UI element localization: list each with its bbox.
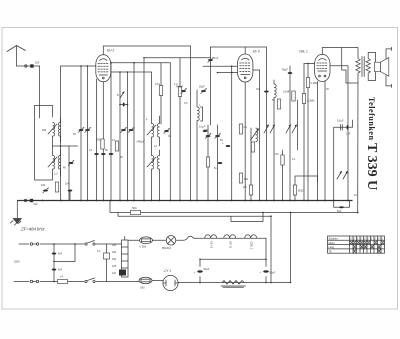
osc coil core bracket	[201, 107, 203, 121]
lamp BW304	[166, 236, 176, 246]
svg-text:150: 150	[112, 258, 117, 261]
resistor R3	[159, 86, 162, 96]
resistor R9	[55, 182, 58, 192]
trimmer C8	[215, 133, 221, 138]
antenna	[7, 46, 26, 67]
tube EH2 cathode dome	[100, 59, 108, 61]
electrolytic small x228	[226, 145, 231, 147]
svg-text:50μF: 50μF	[199, 86, 205, 89]
IF transformer T2 secondary coil	[157, 124, 159, 138]
resistor R13	[206, 157, 209, 167]
svg-text:0,15: 0,15	[155, 83, 160, 86]
wire vertical x120	[119, 72, 121, 201]
capacitor mid3	[109, 153, 114, 155]
heater EH2	[205, 235, 217, 238]
wire tie y146	[53, 145, 78, 147]
selector tick labels	[112, 244, 117, 275]
wire antenna to coupling cap	[17, 65, 40, 67]
svg-text:2M: 2M	[243, 186, 246, 189]
svg-text:50μF: 50μF	[270, 272, 276, 275]
table row labels	[329, 238, 338, 254]
svg-text:220: 220	[112, 251, 117, 254]
table header marks	[350, 238, 384, 241]
wire EF9 grid pin down	[231, 66, 233, 200]
ground stem left	[16, 201, 18, 219]
wire primary top	[356, 48, 358, 59]
svg-text:EF 9: EF 9	[229, 242, 233, 249]
capacitor 5nF bus	[30, 199, 33, 202]
svg-text:1μF: 1μF	[346, 133, 351, 136]
wire grid line y66	[61, 65, 96, 67]
capacitor blob x70	[68, 190, 73, 192]
junction dots anode line	[110, 62, 112, 64]
wire CBL1 anode top	[322, 48, 356, 55]
speaker voice coil	[375, 62, 381, 71]
plug pin lower	[30, 280, 38, 282]
wire vertical x81	[80, 66, 82, 201]
resistor R5	[249, 185, 252, 195]
wire T1 secondary	[60, 118, 62, 142]
svg-text:1nF: 1nF	[65, 183, 70, 186]
wire bus gap	[17, 200, 24, 202]
wire vertical x308 grid leak	[307, 64, 309, 201]
svg-text:U 500: U 500	[140, 246, 147, 249]
svg-text:TA: TA	[329, 250, 332, 253]
trimmer C4	[128, 127, 134, 132]
tube EF9 anode line	[241, 74, 250, 76]
wire EH2 top to screen rail	[103, 46, 190, 55]
coil can L1 outline	[35, 106, 53, 181]
svg-text:100: 100	[41, 184, 46, 187]
wire x70 stub	[69, 191, 71, 201]
svg-text:0,1: 0,1	[89, 149, 93, 152]
svg-text:250: 250	[96, 139, 101, 142]
svg-text:450μF: 450μF	[176, 86, 184, 89]
speaker cone	[381, 58, 389, 77]
svg-text:5nF: 5nF	[35, 62, 40, 65]
tube EF9 heater dot	[244, 77, 246, 79]
wire vertical x161	[160, 63, 162, 124]
junction dot CBL1 grid	[307, 63, 309, 65]
resistor R11	[239, 124, 242, 134]
wire EF9 right pin	[253, 70, 260, 201]
tube CBL1 anode line	[318, 70, 327, 72]
svg-text:Schalter: Schalter	[329, 238, 338, 241]
svg-text:0,1μF: 0,1μF	[337, 120, 344, 123]
mains line lower y281.5	[14, 281, 140, 283]
trimmer C6 padder	[181, 88, 187, 93]
svg-text:Lang: Lang	[329, 246, 335, 249]
junction dot B+	[357, 212, 359, 214]
wire vertical x210.5	[210, 47, 212, 125]
wire secondary to voice coil	[368, 53, 375, 81]
svg-text:0,4MΩ: 0,4MΩ	[311, 82, 319, 85]
resistor R14	[292, 91, 295, 101]
svg-text:5nF: 5nF	[58, 269, 63, 272]
svg-text:50μF: 50μF	[204, 268, 210, 271]
svg-text:EF 9: EF 9	[253, 50, 260, 54]
trimmer C11	[43, 188, 49, 193]
svg-text:100: 100	[256, 88, 261, 91]
IF transformer T2 primary coil	[152, 124, 154, 138]
trimmer C9	[208, 57, 214, 62]
resistor R6	[281, 155, 284, 165]
wire vertical x87.5	[87, 66, 89, 201]
wire vertical x274	[273, 80, 275, 201]
trimmer C1	[78, 127, 84, 132]
trimmer C3	[121, 127, 127, 132]
capacitor 5nF antenna	[30, 64, 33, 67]
filter resistor zigzag	[221, 281, 246, 288]
wave table box	[328, 236, 385, 253]
tone loop under bus	[334, 201, 350, 208]
resistor R1	[101, 139, 104, 149]
tube EH2 anode line	[99, 74, 108, 76]
rectifier CY1	[163, 275, 178, 290]
capacitor blob x71	[68, 160, 74, 165]
svg-text:T 339 U: T 339 U	[364, 143, 379, 190]
svg-text:EH 2: EH 2	[107, 49, 114, 53]
tube EF9 grids	[240, 63, 251, 71]
wire primary bottom	[342, 48, 358, 213]
wire vertical x297.5	[297, 100, 299, 150]
wire EF9 screen rail	[211, 47, 267, 54]
wire T2 leads	[152, 72, 160, 201]
svg-text:1 A: 1 A	[60, 276, 64, 279]
dc top rail y259.3	[200, 259, 266, 282]
main ground bus y200.5	[17, 200, 352, 202]
svg-text:U: U	[381, 238, 383, 241]
wire vertical x304	[303, 64, 305, 201]
svg-text:0,1: 0,1	[97, 250, 101, 253]
coil L4	[274, 84, 276, 98]
capacitor blob x266	[264, 91, 269, 93]
voltage selector ladder	[122, 240, 129, 277]
wire vertical x111	[110, 63, 112, 201]
node bus circle	[24, 199, 26, 201]
wire vertical x217.5	[217, 125, 219, 201]
wire EH2 cathode down	[102, 82, 104, 201]
heater EF9	[224, 235, 236, 238]
svg-text:0,1: 0,1	[112, 139, 116, 142]
svg-text:CY 1: CY 1	[164, 269, 171, 273]
resistor R4	[178, 87, 181, 97]
switch contact arrows S2	[286, 125, 297, 133]
svg-text:5nF: 5nF	[34, 203, 39, 206]
tube CBL1 cathode dome	[319, 59, 326, 61]
wire vertical x127.5	[127, 72, 129, 201]
capacitor mid2	[101, 153, 106, 155]
junction dot EF9 grid	[231, 65, 233, 67]
trimmer C6b padder	[201, 88, 207, 93]
wire vertical x144	[144, 58, 211, 201]
wire CBL1 pin2 down	[324, 81, 326, 200]
capacitor blob x220	[218, 162, 223, 164]
junction dots on y66	[80, 65, 82, 67]
wire CBL1 screen right	[330, 66, 348, 201]
heater bus y216	[118, 213, 271, 217]
wire vertical x61	[60, 66, 62, 201]
svg-text:240: 240	[112, 244, 117, 247]
wire CBL1 grid left	[304, 63, 315, 65]
resistor R10 600ohm	[293, 185, 296, 195]
wire L2 leads	[53, 136, 61, 176]
svg-text:5nF: 5nF	[337, 210, 342, 213]
fuse U50 lower	[139, 277, 152, 283]
svg-text:220V: 220V	[14, 261, 20, 264]
IF T2 lower secondary	[157, 156, 159, 170]
resistor R7 0,1M	[306, 78, 309, 88]
anode bus y212.5	[110, 201, 358, 213]
resistor R11b	[239, 173, 242, 183]
svg-text:5nF: 5nF	[58, 253, 63, 256]
tube EF9 cathode dome	[242, 58, 250, 60]
trimmer C2	[85, 127, 91, 132]
svg-text:460: 460	[42, 129, 47, 132]
wire vertical x282.5	[282, 150, 284, 201]
wire heater end down	[265, 238, 267, 282]
tube CBL1 diode dots	[319, 75, 321, 77]
resistor R15	[277, 99, 280, 109]
tuning arrow L2	[48, 157, 57, 167]
wire vertical x134	[133, 63, 135, 201]
wire EF9 grid left	[203, 65, 238, 67]
svg-text:110: 110	[112, 272, 117, 275]
tone line y131.8	[334, 120, 353, 201]
svg-text:50Ω: 50Ω	[132, 207, 137, 210]
wire vertical x266.4	[265, 47, 267, 201]
svg-text:0,1MΩ: 0,1MΩ	[283, 91, 291, 94]
capacitor blob c2	[347, 125, 349, 130]
wire x271 down	[270, 216, 272, 282]
arrow small x122	[120, 92, 124, 98]
capacitor row mid	[94, 153, 99, 155]
resistor R8 0,3M	[302, 94, 305, 104]
wire fuse to lamp	[153, 239, 167, 241]
svg-text:0,1μF: 0,1μF	[199, 126, 206, 129]
wire EF9 cathode down	[244, 82, 246, 201]
bus junction dots	[42, 200, 349, 202]
capacitor blob x205	[203, 130, 208, 132]
wire EF9 aux left pin	[218, 72, 238, 74]
capacitor blob tone	[339, 206, 344, 208]
electrolytic cap 2	[260, 270, 276, 274]
tube EF9 envelope	[238, 54, 253, 82]
svg-text:0,1: 0,1	[244, 126, 248, 129]
wire vertical x190.5	[190, 46, 192, 201]
wire vertical x251	[250, 128, 252, 201]
coil L5 arrow	[251, 129, 259, 140]
wire selector to fuse	[125, 237, 140, 241]
svg-text:0,1: 0,1	[154, 145, 158, 148]
svg-text:U50: U50	[140, 287, 145, 290]
svg-text:U: U	[364, 238, 366, 241]
tube EH2 heater dot	[102, 77, 104, 79]
wire EH2 anode right	[111, 62, 171, 64]
svg-text:0,5: 0,5	[184, 102, 188, 105]
mains line upper y244	[19, 243, 122, 245]
node antenna coupling circle	[25, 65, 27, 67]
L step x263	[231, 213, 263, 222]
IF coil L2 primary	[53, 156, 55, 170]
thermal choke	[176, 236, 196, 240]
svg-text:1nF: 1nF	[214, 57, 219, 60]
output transformer secondary	[366, 59, 370, 74]
capacitor series tie y104.5	[119, 103, 128, 107]
heater CBL1	[245, 235, 257, 238]
capacitor 5nF mains1	[52, 253, 57, 255]
ground symbol	[12, 218, 22, 224]
tube CBL1 grids	[317, 63, 328, 69]
IF transformer T1 secondary coil	[58, 123, 60, 137]
tube CBL1 envelope	[315, 54, 330, 81]
svg-text:ZF=484 kHz: ZF=484 kHz	[20, 227, 45, 232]
tuning arrow T2b	[147, 157, 156, 167]
tube EH2 envelope	[96, 55, 111, 82]
transformer core	[362, 57, 364, 77]
wire cap branch x54	[53, 244, 55, 282]
selector wiper block	[119, 270, 126, 276]
coil L5 tunable	[256, 128, 258, 142]
resistor R2	[115, 141, 118, 151]
IF transformer T1 primary coil	[53, 123, 55, 137]
svg-text:125: 125	[112, 265, 117, 268]
fuse U500	[140, 237, 153, 244]
junction dots aux	[262, 212, 291, 284]
tuning arrow T2a	[147, 125, 156, 135]
svg-text:BW/304: BW/304	[162, 247, 172, 250]
wire EH2 pin y72	[111, 71, 152, 73]
svg-text:2,2: 2,2	[54, 173, 58, 176]
output transformer primary	[356, 59, 360, 74]
trimmer C5	[164, 128, 170, 133]
svg-text:CBL 1: CBL 1	[250, 242, 254, 251]
table X marks row3	[354, 245, 381, 248]
junction dots dc	[199, 259, 267, 284]
wire x295	[295, 176, 318, 201]
speaker terminal top	[386, 47, 392, 58]
svg-text:0,3MΩ: 0,3MΩ	[307, 100, 315, 103]
wire vertical x170.3	[169, 63, 171, 201]
svg-text:50μF: 50μF	[282, 69, 288, 72]
wire cap midtap	[54, 244, 75, 262]
switch lower	[85, 278, 95, 283]
capacitor box mains	[104, 253, 110, 259]
resistor R12	[251, 142, 254, 152]
table X marks row4	[353, 249, 380, 253]
heater rail y238.2	[196, 237, 266, 239]
wire antenna down into can	[39, 66, 41, 118]
wire x290 down	[290, 213, 292, 283]
resistor 1A box	[58, 280, 68, 284]
svg-text:0,1: 0,1	[292, 158, 296, 161]
oscillator coil L3	[197, 107, 199, 121]
wire fuse to CY1	[152, 281, 179, 283]
junction dot tie	[60, 145, 62, 147]
svg-text:EH 2: EH 2	[210, 242, 214, 249]
tube EH2 grids	[98, 64, 109, 72]
svg-text:Telefunken: Telefunken	[367, 97, 376, 140]
switch upper	[85, 241, 95, 246]
wire vertical x208	[207, 125, 209, 201]
electrolytic cap 1	[194, 268, 210, 275]
wire vertical x290	[289, 66, 291, 201]
capacitor 5nF mains2	[52, 269, 57, 271]
dc bottom rail y282.5	[179, 282, 291, 284]
svg-text:600Ω: 600Ω	[298, 190, 304, 193]
capacitor blob x290	[288, 72, 293, 74]
switch contact arrows S1	[264, 125, 275, 133]
trimmer C7 padder	[205, 133, 211, 138]
table X marks row2	[350, 241, 384, 244]
svg-text:1M: 1M	[275, 153, 278, 156]
IF coil L2 secondary	[58, 156, 60, 170]
wire vertical x180	[179, 58, 181, 201]
svg-text:U: U	[378, 238, 380, 241]
svg-text:U: U	[350, 238, 352, 241]
svg-text:Mittel: Mittel	[329, 242, 335, 245]
pot arrows	[337, 172, 348, 180]
wire branch x106.5	[106, 244, 108, 282]
ground hatch	[11, 221, 22, 226]
resistor 50ohm	[131, 210, 141, 214]
wire CBL1 cathode pins down	[317, 81, 319, 200]
IF T2 lower primary	[152, 156, 154, 170]
speaker terminal bottom	[386, 76, 392, 88]
svg-text:CBL 1: CBL 1	[299, 50, 308, 54]
capacitor plates c1	[341, 125, 343, 131]
junction dots mains	[53, 243, 76, 282]
wire vertical x69	[68, 146, 70, 201]
wire vertical x197	[196, 90, 198, 201]
wire EH2 pin left down	[96, 79, 98, 201]
plug pin upper	[30, 243, 38, 245]
tuning arrow T1	[48, 124, 57, 134]
